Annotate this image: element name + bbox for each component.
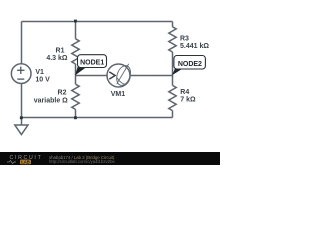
svg-text:NODE2: NODE2: [178, 61, 202, 68]
wire R2 bottom lead: [75, 109, 77, 117]
svg-text:7 kΩ: 7 kΩ: [180, 96, 196, 103]
svg-text:4.3 kΩ: 4.3 kΩ: [46, 55, 68, 62]
svg-text:R2: R2: [58, 89, 67, 96]
svg-text:R4: R4: [180, 89, 189, 96]
node NODE1 box: [78, 55, 107, 68]
wire bottom horizontal: [22, 117, 173, 119]
svg-text:5.441 kΩ: 5.441 kΩ: [180, 43, 209, 50]
wire R1 bottom lead: [75, 64, 77, 76]
ground stem: [21, 118, 23, 126]
svg-text:variable Ω: variable Ω: [34, 97, 68, 104]
node NODE1 pointer: [75, 67, 86, 75]
wire R3 top lead: [172, 22, 174, 27]
watermark line 2: [49, 159, 115, 164]
ground triangle: [15, 125, 28, 135]
circuitlab logo wave + LAB: [6, 159, 36, 165]
V1 minus sign: [17, 78, 24, 80]
svg-text:V1: V1: [35, 69, 44, 76]
node NODE2 pointer: [172, 69, 182, 76]
junction dot top: [74, 20, 77, 23]
voltmeter VM1 dial: [114, 64, 133, 87]
svg-text:R3: R3: [180, 36, 189, 43]
circuitlab logo text: [10, 155, 43, 161]
wire top horizontal: [22, 21, 173, 23]
resistor R1: [72, 39, 79, 64]
wire left vertical upper: [21, 22, 23, 64]
svg-text:10 V: 10 V: [35, 76, 50, 83]
node NODE2 box: [174, 56, 206, 70]
svg-text:NODE1: NODE1: [80, 59, 104, 66]
voltage source V1 circle: [11, 64, 31, 84]
wire R2 top lead: [75, 76, 77, 85]
wire R4 top lead: [172, 76, 174, 86]
junction dot R2 bottom: [74, 116, 77, 119]
svg-text:R1: R1: [56, 47, 65, 54]
junction dot ground: [20, 116, 23, 119]
wire R4 bottom lead: [172, 111, 174, 118]
svg-text:LAB: LAB: [21, 160, 30, 165]
wire VM1 left lead: [76, 75, 108, 77]
voltmeter VM1 circle: [107, 64, 130, 87]
V1 plus sign: [17, 67, 24, 80]
voltmeter plus arrow: [109, 72, 115, 79]
wire R1 top lead: [75, 22, 77, 39]
wire VM1 right lead: [130, 75, 173, 77]
resistor R3: [169, 27, 176, 52]
watermark line 1: [49, 155, 114, 160]
resistor R4: [169, 85, 176, 110]
svg-text:VM1: VM1: [111, 91, 126, 98]
labels: [34, 36, 210, 105]
watermark bar: [0, 152, 220, 165]
resistor R2: [72, 84, 79, 109]
wire R3 bottom lead: [172, 52, 174, 76]
wire left vertical lower: [21, 83, 23, 117]
